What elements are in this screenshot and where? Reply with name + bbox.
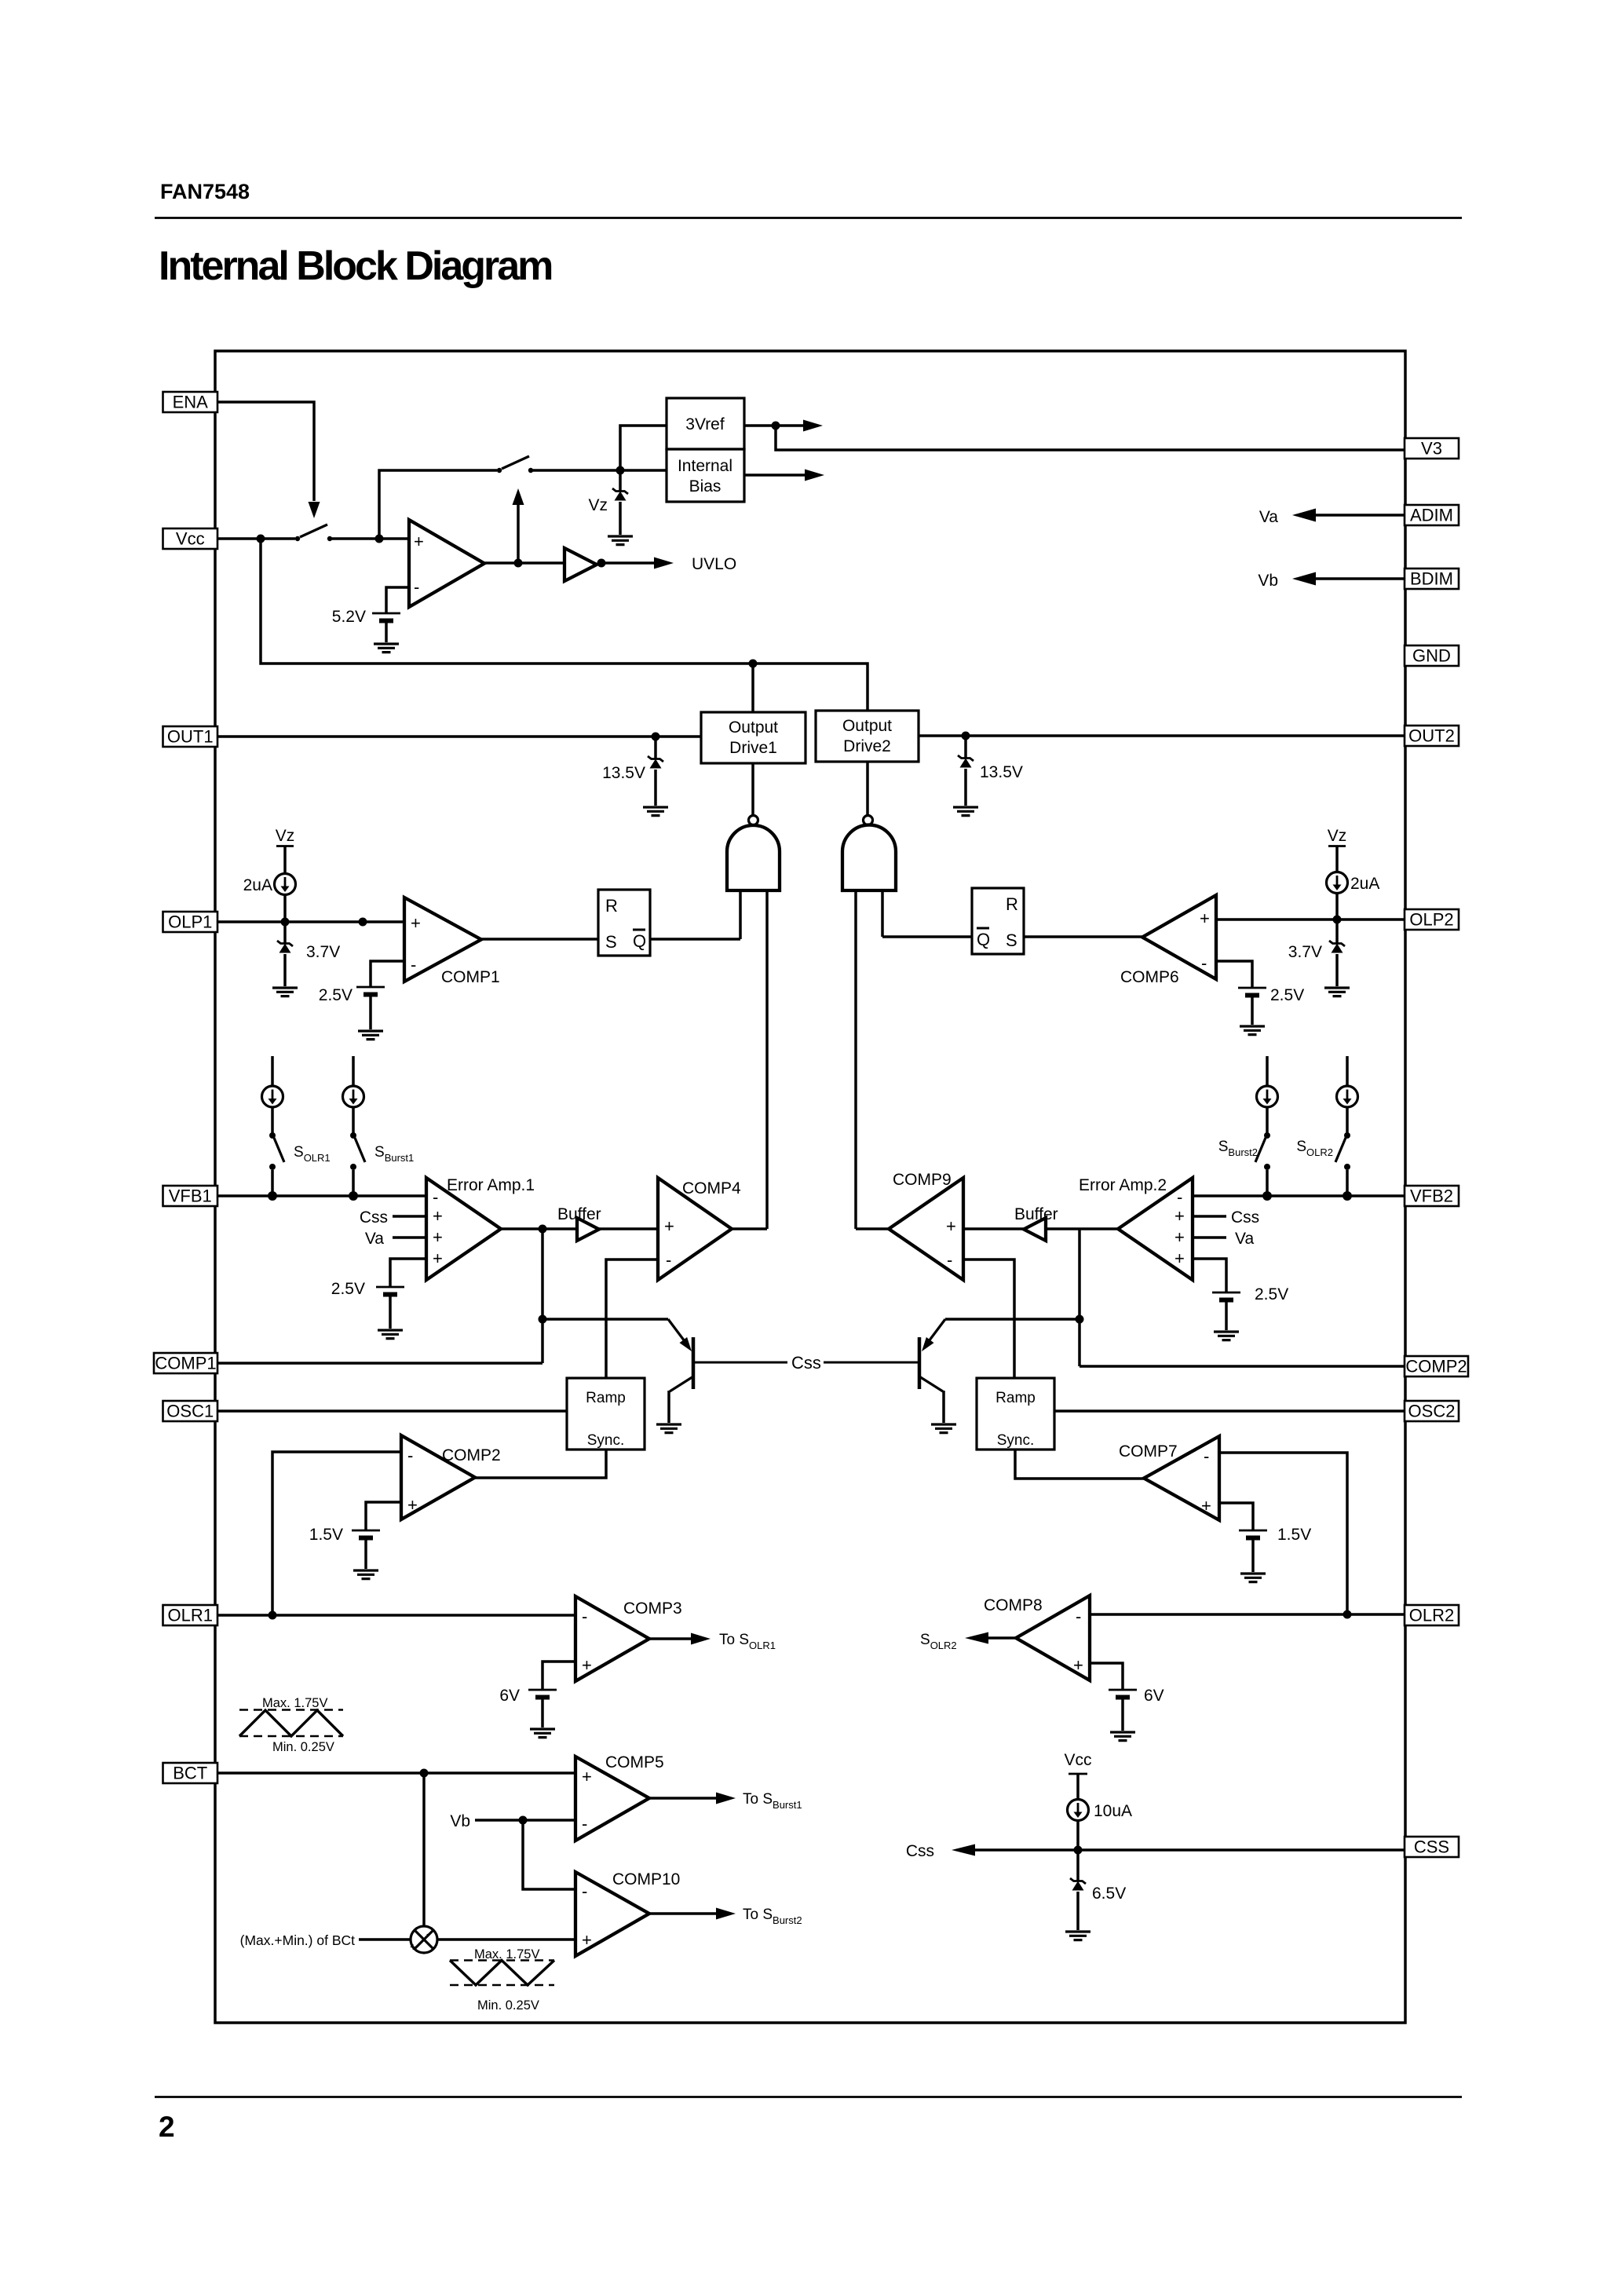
wire buffer to COMP4 bbox=[599, 1227, 658, 1230]
zener 3.7V (OLP1 clamp) bbox=[277, 922, 293, 986]
svg-text:COMP4: COMP4 bbox=[682, 1179, 741, 1197]
wire COMP4 output to U1 bbox=[732, 1227, 767, 1230]
wire Va input stub bbox=[1193, 1236, 1226, 1239]
block Ramp Sync 1 bbox=[567, 1378, 645, 1450]
wire V3 net to port bbox=[776, 426, 1405, 450]
svg-text:3Vref: 3Vref bbox=[685, 415, 725, 433]
wire ENA to switch control bbox=[217, 402, 314, 501]
svg-text:OSC2: OSC2 bbox=[1408, 1402, 1456, 1421]
current source (S_Burst2 chain) bbox=[1257, 1056, 1278, 1133]
wire OLP1 port to COMP1 bbox=[217, 920, 404, 923]
svg-text:-: - bbox=[582, 1881, 587, 1901]
port VFB2 (right pin label) bbox=[1405, 1186, 1459, 1206]
svg-text:2.5V: 2.5V bbox=[319, 986, 353, 1004]
arrow Internal Bias out bbox=[744, 470, 824, 481]
wire COMP9 - input to ramp2 bbox=[963, 1260, 1014, 1378]
block Output Drive2 bbox=[816, 711, 919, 762]
ground (below OLP2 zener) bbox=[1324, 988, 1350, 996]
arrow COMP5 output bbox=[649, 1793, 736, 1804]
svg-text:Va: Va bbox=[365, 1230, 384, 1248]
wire buffer to UVLO arrow bbox=[601, 558, 674, 569]
svg-text:Css: Css bbox=[791, 1353, 821, 1373]
ground (below 3.7V zener) bbox=[272, 988, 298, 996]
svg-text:Vb: Vb bbox=[450, 1812, 470, 1830]
switch S1 (Vcc series switch) bbox=[295, 525, 332, 541]
svg-text:-: - bbox=[582, 1607, 587, 1626]
wire OLR2 port to COMP8 bbox=[1090, 1613, 1405, 1616]
svg-text:-: - bbox=[407, 1446, 413, 1465]
port OLR2 (right pin label) bbox=[1405, 1605, 1459, 1625]
wire Drive1 input pin bbox=[751, 763, 754, 815]
wire node up to 3Vref input bbox=[620, 426, 667, 470]
current source 2uA (OLP1) bbox=[275, 874, 296, 895]
svg-text:+: + bbox=[433, 1249, 443, 1268]
latch RS2 bbox=[972, 888, 1024, 954]
arrow Css out bbox=[952, 1844, 975, 1856]
wire battery to ground bbox=[1251, 1538, 1255, 1572]
terminal bar Vz bbox=[1328, 845, 1346, 847]
svg-text:-: - bbox=[1177, 1187, 1182, 1207]
wire COMP9 output to U2 bbox=[856, 1227, 889, 1230]
battery 1.5V (COMP2 ref) bbox=[352, 1530, 380, 1538]
wire Vcc from port bbox=[217, 537, 261, 540]
svg-text:2.5V: 2.5V bbox=[1255, 1285, 1288, 1303]
svg-text:R: R bbox=[1006, 894, 1018, 914]
nand gate U1 (drive1 logic) bbox=[727, 816, 780, 891]
wire VFB1 port to Error Amp.1 bbox=[217, 1194, 426, 1197]
wire Q1 to Css label bbox=[695, 1362, 787, 1364]
current source 10uA bbox=[1068, 1800, 1089, 1821]
ground (below OUT2 zener) bbox=[953, 807, 978, 816]
svg-text:Sync.: Sync. bbox=[997, 1432, 1035, 1449]
op-amp COMP7 bbox=[1144, 1436, 1219, 1520]
wire Error Amp.1 output bbox=[501, 1227, 577, 1230]
op-amp Error Amp.1 bbox=[426, 1178, 501, 1280]
arrow COMP10 output bbox=[649, 1908, 736, 1920]
wire COMP3 + input to 6V bbox=[542, 1662, 575, 1690]
battery 1.5V (COMP7 ref) bbox=[1239, 1530, 1267, 1538]
svg-text:COMP2: COMP2 bbox=[1405, 1357, 1467, 1377]
svg-text:Drive2: Drive2 bbox=[843, 737, 891, 755]
buffer B2 bbox=[1024, 1218, 1046, 1241]
svg-text:+: + bbox=[582, 1655, 592, 1675]
svg-text:5.2V: 5.2V bbox=[332, 608, 366, 626]
svg-text:-: - bbox=[411, 955, 416, 974]
svg-text:COMP2: COMP2 bbox=[442, 1446, 501, 1464]
buffer UVLO driver bbox=[564, 548, 597, 581]
switch S_OLR1 bbox=[269, 1132, 284, 1196]
wire Vz to current source bbox=[1335, 846, 1339, 873]
svg-text:Min. 0.25V: Min. 0.25V bbox=[477, 1998, 539, 2013]
wire COMP2 - input to OLR1 net bbox=[272, 1452, 401, 1615]
block Output Drive1 bbox=[701, 712, 806, 763]
node drive1 supply tap bbox=[749, 660, 758, 668]
wire BDIM arrow to Vb bbox=[1292, 572, 1405, 586]
svg-text:OUT2: OUT2 bbox=[1408, 726, 1455, 746]
latch RS1 bbox=[598, 890, 650, 956]
arrow 3Vref out bbox=[776, 420, 823, 432]
node S_Burst2 tap bbox=[1262, 1191, 1272, 1201]
battery 6V (COMP3 ref) bbox=[528, 1690, 557, 1698]
svg-text:-: - bbox=[414, 577, 419, 597]
wire switch to comparator + input bbox=[330, 537, 409, 540]
node S_OLR2 tap bbox=[1343, 1191, 1352, 1201]
wire OSC1 port to ramp1 bbox=[217, 1409, 567, 1413]
svg-text:2uA: 2uA bbox=[243, 876, 272, 894]
header rule bbox=[155, 217, 1462, 219]
wire Vcc rail to output drivers bbox=[261, 539, 868, 711]
svg-text:VFB2: VFB2 bbox=[1410, 1186, 1453, 1206]
wire U2 left input from COMP9 bbox=[854, 890, 857, 1229]
wire COMP4 - input to ramp1 bbox=[606, 1260, 658, 1378]
op-amp COMP3 bbox=[575, 1596, 649, 1681]
wire current source to CSS net bbox=[1076, 1820, 1080, 1850]
wire VFB2 port to Error Amp.2 bbox=[1193, 1194, 1405, 1197]
current source 2uA (OLP2) bbox=[1327, 872, 1348, 894]
svg-text:Error Amp.2: Error Amp.2 bbox=[1079, 1176, 1167, 1194]
wire node to switch bbox=[261, 537, 295, 540]
wire COMP8 + input to 6V bbox=[1090, 1663, 1123, 1690]
wire Va input stub bbox=[393, 1236, 426, 1239]
svg-text:+: + bbox=[1174, 1206, 1185, 1226]
op-amp COMP8 bbox=[1016, 1596, 1090, 1680]
node BCT tap bbox=[420, 1769, 429, 1778]
block 3Vref regulator bbox=[667, 398, 744, 449]
svg-text:BDIM: BDIM bbox=[1410, 569, 1453, 589]
ground (below Vz zener) bbox=[608, 536, 633, 545]
port OLR1 (left pin label) bbox=[163, 1605, 218, 1625]
switch S2 (internal bias switch) bbox=[497, 456, 533, 473]
svg-text:+: + bbox=[410, 1940, 416, 1953]
svg-text:COMP1: COMP1 bbox=[155, 1354, 216, 1373]
port V3 (right pin label) bbox=[1405, 438, 1459, 459]
svg-text:OLR2: OLR2 bbox=[1409, 1606, 1454, 1625]
wire + input to 2.5V bbox=[1193, 1259, 1226, 1292]
ground (below 6.5V zener) bbox=[1065, 1932, 1090, 1940]
node OUT2 clamp tap bbox=[962, 732, 970, 740]
ground (below COMP8 ref) bbox=[1110, 1732, 1135, 1741]
svg-text:+: + bbox=[1201, 1496, 1211, 1515]
op-amp UVLO comparator bbox=[409, 520, 484, 607]
svg-text:S: S bbox=[1006, 930, 1017, 950]
wire COMP2 + input to 1.5V bbox=[366, 1502, 401, 1530]
svg-text:-: - bbox=[582, 1814, 587, 1834]
svg-text:+: + bbox=[1073, 1655, 1083, 1675]
port VFB1 (left pin label) bbox=[163, 1186, 218, 1206]
wire current source to OLP1 net bbox=[283, 894, 287, 922]
svg-text:2uA: 2uA bbox=[1350, 875, 1379, 893]
svg-text:Drive1: Drive1 bbox=[729, 739, 777, 757]
buffer B1 bbox=[577, 1218, 599, 1241]
svg-text:Va: Va bbox=[1235, 1230, 1254, 1248]
multiplier (burst level mixer) bbox=[410, 1926, 437, 1953]
svg-text:OLP2: OLP2 bbox=[1409, 910, 1453, 930]
arrow COMP3 output bbox=[649, 1633, 711, 1645]
port OLP1 (left pin label) bbox=[163, 912, 218, 932]
svg-text:3.7V: 3.7V bbox=[306, 943, 340, 961]
footer rule bbox=[155, 2096, 1462, 2098]
svg-text:S: S bbox=[605, 932, 617, 952]
wire latch Q to U2 bbox=[882, 935, 972, 938]
svg-text:+: + bbox=[414, 532, 424, 551]
svg-text:Css: Css bbox=[360, 1208, 388, 1227]
port BDIM (right pin label) bbox=[1405, 569, 1459, 589]
svg-text:6.5V: 6.5V bbox=[1092, 1885, 1126, 1903]
svg-text:+: + bbox=[411, 913, 421, 933]
svg-text:6V: 6V bbox=[499, 1687, 520, 1705]
wire node to Q2 bbox=[945, 1318, 1080, 1321]
wire COMP6 output to latch S bbox=[1024, 935, 1142, 938]
current source (S_OLR2 chain) bbox=[1337, 1056, 1358, 1133]
wire EA1 output sense down bbox=[541, 1229, 544, 1363]
svg-text:3.7V: 3.7V bbox=[1288, 943, 1322, 961]
port Vcc (left pin label) bbox=[163, 528, 218, 549]
node OLR2/COMP7 tap bbox=[1343, 1610, 1352, 1619]
wire + input to 2.5V bbox=[390, 1259, 426, 1287]
svg-text:+: + bbox=[407, 1495, 418, 1515]
node at riser junction bbox=[375, 535, 384, 543]
port OSC2 (right pin label) bbox=[1405, 1401, 1459, 1421]
svg-text:+: + bbox=[582, 1930, 592, 1950]
block Internal Bias bbox=[667, 449, 744, 502]
wire ramp1 bottom to COMP2 output bbox=[475, 1450, 606, 1478]
svg-text:Sync.: Sync. bbox=[587, 1432, 625, 1449]
svg-text:Buffer: Buffer bbox=[1014, 1205, 1058, 1223]
wire battery to ground bbox=[389, 1295, 392, 1329]
svg-text:Internal: Internal bbox=[678, 457, 732, 475]
svg-text:+: + bbox=[582, 1767, 592, 1786]
svg-text:COMP3: COMP3 bbox=[623, 1600, 682, 1618]
wire buffer to COMP9 bbox=[963, 1227, 1024, 1230]
svg-text:R: R bbox=[605, 896, 618, 916]
wire U1 right input from COMP4 bbox=[765, 890, 769, 1229]
battery 2.5V (Error Amp.2 ref) bbox=[1212, 1292, 1240, 1300]
svg-text:+: + bbox=[1200, 909, 1210, 928]
schematic border frame bbox=[215, 351, 1405, 2023]
svg-text:COMP7: COMP7 bbox=[1119, 1442, 1178, 1461]
node OLP1/zener bbox=[281, 918, 290, 927]
svg-text:Q: Q bbox=[633, 931, 646, 951]
block Ramp Sync 2 bbox=[977, 1378, 1054, 1450]
wire battery to ground bbox=[369, 995, 372, 1029]
ground (below OUT1 zener) bbox=[643, 807, 668, 816]
wire comparator output bbox=[484, 561, 564, 565]
wire latch Q to U1 bbox=[650, 938, 740, 941]
wire COMP7 + input to 1.5V bbox=[1219, 1503, 1253, 1530]
svg-text:Vz: Vz bbox=[1328, 827, 1347, 845]
svg-text:Max. 1.75V: Max. 1.75V bbox=[262, 1696, 327, 1710]
svg-text:Vcc: Vcc bbox=[1064, 1751, 1091, 1769]
node Vcc junction bbox=[257, 535, 265, 543]
wire multiplier to COMP10 + input bbox=[437, 1938, 575, 1941]
node EA1 output bbox=[539, 1225, 547, 1234]
wire Drive2 input pin bbox=[866, 762, 869, 815]
wire COMP7 - input to OLR2 net bbox=[1219, 1453, 1347, 1614]
svg-text:-: - bbox=[947, 1250, 952, 1270]
ground (below COMP6 ref) bbox=[1240, 1026, 1265, 1035]
svg-text:-: - bbox=[1204, 1446, 1209, 1466]
svg-text:Error Amp.1: Error Amp.1 bbox=[447, 1176, 535, 1194]
svg-text:OUT1: OUT1 bbox=[167, 727, 214, 747]
svg-text:+: + bbox=[946, 1216, 956, 1236]
wire - input to 5.2V ref bbox=[386, 587, 409, 613]
waveform ramp (BCT sketch) bbox=[450, 1947, 554, 2013]
node after buffer bbox=[597, 559, 606, 568]
wire OLP2 port to COMP6 bbox=[1216, 918, 1405, 921]
arrow COMP8 output bbox=[965, 1632, 1016, 1644]
switch S_Burst1 bbox=[350, 1132, 365, 1196]
op-amp COMP2 bbox=[401, 1435, 475, 1519]
node comparator output bbox=[514, 559, 523, 568]
wire Css input stub bbox=[393, 1215, 426, 1218]
terminal bar Vcc bbox=[1069, 1773, 1087, 1775]
port OSC1 (left pin label) bbox=[163, 1401, 218, 1421]
svg-text:Vb: Vb bbox=[1258, 572, 1278, 590]
node Vb tap bbox=[519, 1816, 528, 1825]
svg-text:Output: Output bbox=[729, 718, 778, 737]
op-amp COMP5 bbox=[575, 1757, 649, 1841]
wire Error Amp.2 output bbox=[1046, 1227, 1118, 1230]
transistor Q2 bbox=[919, 1319, 945, 1423]
node OUT1 clamp tap bbox=[652, 733, 660, 741]
svg-text:-: - bbox=[1201, 953, 1207, 973]
svg-text:+: + bbox=[1174, 1249, 1185, 1268]
terminal bar Vz bbox=[276, 845, 294, 847]
wire EA2 output sense down bbox=[1078, 1229, 1081, 1366]
zener 6.5V (CSS clamp) bbox=[1070, 1850, 1086, 1930]
svg-text:Output: Output bbox=[842, 717, 892, 735]
waveform ramp (OSC1 sketch) bbox=[239, 1696, 343, 1754]
battery 6V (COMP8 ref) bbox=[1109, 1690, 1137, 1698]
node S_OLR1 tap bbox=[268, 1191, 277, 1201]
svg-text:+: + bbox=[433, 1206, 443, 1226]
svg-text:Va: Va bbox=[1259, 508, 1278, 526]
node 3Vref output bbox=[772, 422, 780, 430]
wire label to multiplier bbox=[359, 1938, 411, 1941]
node CSS junction bbox=[1074, 1846, 1083, 1855]
op-amp COMP9 bbox=[889, 1178, 963, 1280]
zener 3.7V (OLP2 clamp) bbox=[1329, 919, 1345, 986]
wire ADIM arrow to Va bbox=[1292, 509, 1405, 522]
node Q1 tap bbox=[539, 1315, 547, 1324]
svg-text:Internal Block Diagram: Internal Block Diagram bbox=[159, 243, 552, 289]
svg-text:10uA: 10uA bbox=[1094, 1802, 1132, 1820]
svg-text:Q: Q bbox=[977, 930, 990, 949]
svg-text:2: 2 bbox=[159, 2111, 175, 2143]
svg-text:1.5V: 1.5V bbox=[309, 1526, 343, 1544]
op-amp COMP4 bbox=[658, 1178, 732, 1280]
wire 3Vref output bbox=[744, 424, 776, 427]
svg-text:2.5V: 2.5V bbox=[1270, 986, 1304, 1004]
port CSS (right pin label) bbox=[1405, 1837, 1459, 1857]
svg-text:Vz: Vz bbox=[588, 496, 608, 514]
node OLR1/COMP2 tap bbox=[269, 1611, 277, 1620]
wire COMP1 output to latch S bbox=[481, 938, 598, 941]
battery 2.5V (COMP1 ref) bbox=[356, 987, 385, 995]
svg-text:BCT: BCT bbox=[173, 1764, 207, 1783]
wire OUT1 port to Drive1 bbox=[217, 735, 701, 738]
svg-text:OLP1: OLP1 bbox=[168, 912, 212, 932]
port COMP2 (right pin label) bbox=[1405, 1356, 1468, 1377]
svg-text:2.5V: 2.5V bbox=[331, 1280, 365, 1298]
op-amp COMP6 bbox=[1142, 895, 1216, 979]
svg-text:OLR1: OLR1 bbox=[168, 1606, 213, 1625]
svg-text:Vz: Vz bbox=[276, 827, 295, 845]
port OUT2 (right pin label) bbox=[1405, 726, 1459, 746]
wire COMP1 - input to 2.5V bbox=[371, 961, 404, 987]
node OLP1 wire bbox=[359, 918, 367, 927]
svg-text:COMP6: COMP6 bbox=[1120, 968, 1179, 986]
wire riser to internal-bias switch bbox=[379, 470, 497, 539]
wire COMP2 port net bbox=[1080, 1365, 1405, 1368]
wire COMP6 - input to 2.5V bbox=[1216, 961, 1252, 988]
port ADIM (right pin label) bbox=[1405, 505, 1459, 525]
port ENA (left pin label) bbox=[163, 392, 218, 412]
svg-text:OSC1: OSC1 bbox=[166, 1402, 214, 1421]
svg-text:Ramp: Ramp bbox=[586, 1390, 626, 1406]
wire BCT tap to multiplier bbox=[422, 1773, 426, 1926]
svg-text:1.5V: 1.5V bbox=[1277, 1526, 1311, 1544]
arrow down (ENA control) bbox=[309, 502, 320, 518]
svg-text:+: + bbox=[664, 1216, 674, 1236]
wire U1 left input from latch bbox=[739, 890, 742, 939]
node Vz junction bbox=[616, 466, 625, 475]
svg-text:+: + bbox=[1174, 1227, 1185, 1247]
wire Css input stub bbox=[1193, 1215, 1226, 1218]
svg-text:+: + bbox=[433, 1227, 443, 1247]
ground (below EA2 ref) bbox=[1214, 1332, 1239, 1340]
wire BCT port to COMP5 bbox=[217, 1771, 575, 1775]
battery 2.5V (COMP6 ref) bbox=[1238, 988, 1266, 996]
zener 13.5V (OUT2 clamp) bbox=[958, 736, 974, 806]
battery 5.2V reference bbox=[372, 613, 400, 621]
wire battery to ground bbox=[541, 1698, 544, 1727]
op-amp COMP10 bbox=[575, 1872, 649, 1956]
wire COMP1 port net bbox=[217, 1362, 542, 1365]
svg-text:(Max.+Min.) of BCt: (Max.+Min.) of BCt bbox=[240, 1932, 355, 1948]
svg-text:Vcc: Vcc bbox=[176, 529, 205, 549]
port COMP1 (left pin label) bbox=[154, 1353, 217, 1373]
arrow up (to logic) bbox=[513, 488, 524, 563]
ground (below 5.2V battery) bbox=[374, 644, 399, 653]
op-amp COMP1 bbox=[404, 898, 481, 982]
wire U2 right input from latch bbox=[881, 890, 884, 937]
zener 13.5V (OUT1 clamp) bbox=[648, 737, 663, 806]
svg-text:COMP5: COMP5 bbox=[605, 1753, 664, 1771]
battery 2.5V (Error Amp.1 ref) bbox=[376, 1287, 404, 1295]
svg-text:Ramp: Ramp bbox=[995, 1390, 1036, 1406]
svg-text:ENA: ENA bbox=[173, 393, 209, 412]
switch S_OLR2 bbox=[1335, 1132, 1350, 1196]
nand gate U2 (drive2 logic) bbox=[842, 816, 896, 891]
ground (Q2 emitter) bbox=[931, 1424, 956, 1433]
wire OUT2 port to Drive2 bbox=[919, 734, 1405, 737]
svg-text:Css: Css bbox=[1231, 1208, 1259, 1227]
wire tap down to Drive1 bbox=[751, 664, 754, 712]
port BCT (left pin label) bbox=[163, 1763, 218, 1783]
current source (S_OLR1 chain) bbox=[262, 1056, 283, 1133]
zener Vz (bias clamp) bbox=[612, 470, 628, 535]
wire battery to ground bbox=[385, 621, 388, 642]
svg-text:Bias: Bias bbox=[689, 477, 721, 495]
wire node to Q1 bbox=[542, 1318, 668, 1321]
port OUT1 (left pin label) bbox=[163, 726, 218, 747]
svg-text:COMP10: COMP10 bbox=[612, 1870, 680, 1888]
ground (below COMP3 ref) bbox=[530, 1729, 555, 1738]
ground (below COMP7 ref) bbox=[1240, 1574, 1266, 1582]
wire Vb to COMP5 - input bbox=[475, 1819, 575, 1822]
wire battery to ground bbox=[364, 1538, 367, 1569]
